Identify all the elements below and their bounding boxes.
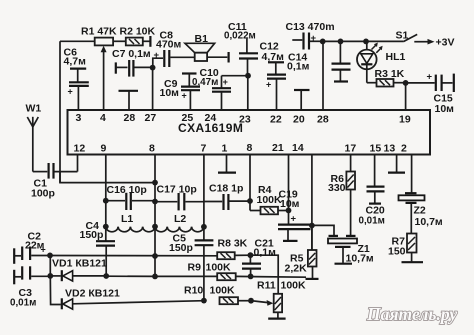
svg-text:0,1м: 0,1м xyxy=(254,247,277,259)
svg-text:8: 8 xyxy=(247,142,253,154)
wire node to pin 23 xyxy=(247,76,249,110)
wire R2 right to terminal bar xyxy=(143,40,150,42)
svg-text:100K: 100K xyxy=(210,285,236,297)
svg-text:25: 25 xyxy=(182,112,194,124)
svg-text:10м: 10м xyxy=(435,103,455,115)
wire top-left rail from node A to R1 xyxy=(60,40,95,42)
svg-text:2: 2 xyxy=(401,143,407,155)
resistor R9 100K xyxy=(188,262,307,281)
terminal bar after R2 xyxy=(149,36,151,47)
node R10 / R11 wiper xyxy=(248,298,254,304)
svg-text:150p: 150p xyxy=(169,242,193,254)
node junction C7/C8/pin27 xyxy=(150,65,156,71)
inductor L2 xyxy=(155,213,207,232)
svg-text:C17 10p: C17 10p xyxy=(157,184,197,196)
svg-text:+: + xyxy=(68,87,73,97)
svg-text:HL1: HL1 xyxy=(386,51,406,63)
svg-text:4: 4 xyxy=(100,112,106,124)
resistor R1 47K (potentiometer body) xyxy=(81,26,117,46)
svg-text:+3V: +3V xyxy=(436,37,455,49)
LED HL1 xyxy=(357,41,405,82)
wire +3V rail xyxy=(323,40,404,42)
capacitor C4 150p xyxy=(80,220,116,276)
svg-text:28: 28 xyxy=(317,114,329,126)
svg-text:100K: 100K xyxy=(206,262,232,274)
svg-text:470м: 470м xyxy=(156,39,182,51)
svg-text:13: 13 xyxy=(384,143,396,155)
R11 wiper arrow xyxy=(251,300,273,306)
node VD2 line / pin7 line xyxy=(201,298,207,304)
node L1/L2 on pin8 line xyxy=(152,224,158,230)
varactor diode VD2 KB121 xyxy=(62,288,204,310)
svg-text:10м: 10м xyxy=(160,87,180,99)
svg-text:R2 10K: R2 10K xyxy=(120,26,156,38)
svg-text:+: + xyxy=(266,80,271,90)
svg-text:2,2K: 2,2K xyxy=(285,263,308,275)
svg-text:150: 150 xyxy=(388,246,406,258)
node rail at C14 xyxy=(338,39,344,45)
svg-text:4,7м: 4,7м xyxy=(64,56,87,68)
svg-text:R8 3K: R8 3K xyxy=(218,238,248,250)
node junction C11/C10/pin23 xyxy=(245,73,251,79)
svg-text:1: 1 xyxy=(222,143,228,155)
arrow to +3V xyxy=(414,39,434,45)
node C21 / R9 line xyxy=(248,274,254,280)
wire pin 7 vertical line xyxy=(203,155,205,241)
wire pin 21 down through C19 xyxy=(288,155,290,224)
svg-text:330: 330 xyxy=(328,182,346,194)
wire junction down to pin 27 xyxy=(152,68,154,110)
svg-text:+: + xyxy=(41,245,46,255)
wire left vertical bus (60,41)-(60,182.6) xyxy=(59,41,61,182)
svg-text:C7 0,1м: C7 0,1м xyxy=(112,48,151,60)
wire VD1/R9 line pin8 to R9 xyxy=(155,275,217,277)
svg-text:0,022м: 0,022м xyxy=(224,31,256,42)
svg-text:R1 47K: R1 47K xyxy=(81,26,117,38)
svg-text:15: 15 xyxy=(370,143,382,155)
capacitor C10 0,47M xyxy=(192,67,231,110)
wire node to pin 19 xyxy=(405,83,407,110)
capacitor C15 10M xyxy=(406,72,455,116)
svg-text:17: 17 xyxy=(345,143,357,155)
capacitor C14 0,1M xyxy=(287,41,351,81)
wire junction up and right to C8 xyxy=(153,58,163,67)
node R8 wire / pin8 line xyxy=(152,253,158,259)
capacitor C21 0,1M xyxy=(242,238,276,277)
node VD1 line / pin8 line xyxy=(152,274,158,280)
svg-text:100K: 100K xyxy=(281,280,307,292)
svg-text:24: 24 xyxy=(205,112,217,124)
svg-text:21: 21 xyxy=(272,142,284,154)
svg-text:+: + xyxy=(427,72,433,83)
terminal bar C3 input xyxy=(13,270,15,285)
IC U1 CXA1619M body xyxy=(68,110,431,155)
inductor L1 xyxy=(103,213,155,232)
svg-text:R10: R10 xyxy=(184,285,203,297)
wire VD2 elbow from C3 node xyxy=(50,276,61,305)
resistor R10 100K xyxy=(184,285,251,305)
wire left bus elbow to pin8 line xyxy=(60,172,155,183)
svg-text:7: 7 xyxy=(201,143,207,155)
wire R1 to R2 xyxy=(113,40,126,42)
svg-text:20: 20 xyxy=(293,114,305,126)
svg-text:28: 28 xyxy=(124,112,136,124)
svg-text:+: + xyxy=(223,77,228,87)
wire pin 14 down xyxy=(311,155,313,251)
capacitor C12 4,7M xyxy=(260,41,287,111)
node VD1 / pin9 line xyxy=(103,273,109,279)
svg-text:0,01м: 0,01м xyxy=(359,216,385,227)
svg-text:0,47м: 0,47м xyxy=(192,77,218,88)
capacitor C11 0,022M xyxy=(224,21,258,76)
wire C10 top to node at C11 bottom xyxy=(222,75,249,77)
wire pin 9 vertical line xyxy=(105,155,107,242)
svg-text:150p: 150p xyxy=(80,229,104,241)
svg-text:+: + xyxy=(311,33,317,44)
capacitor C6 4,7M xyxy=(64,47,89,111)
svg-text:27: 27 xyxy=(145,112,157,124)
node pin8 line / bus xyxy=(152,180,158,186)
ground pin 13 xyxy=(388,155,405,173)
capacitor C7 0,1M xyxy=(112,48,153,77)
node C2 junction xyxy=(47,253,53,259)
capacitor C2 22M xyxy=(14,231,50,261)
capacitor C5 150p xyxy=(169,233,213,301)
switch S1 xyxy=(396,30,418,42)
ceramic filter Z2 10,7M xyxy=(399,155,443,234)
ceramic filter Z1 10,7M xyxy=(328,236,374,265)
resistor R7 150 xyxy=(388,234,423,263)
svg-text:19: 19 xyxy=(399,114,411,126)
svg-text:VD1 КВ121: VD1 КВ121 xyxy=(52,258,107,270)
node pin14 / Z1 branch xyxy=(309,223,315,229)
resistor R3 1K xyxy=(367,68,406,87)
capacitor C20 0,01M xyxy=(359,155,385,227)
resistor R4 100K xyxy=(250,184,289,214)
wire C2 node down to C3 node xyxy=(49,255,51,275)
node R3/C15/pin19 xyxy=(403,80,409,86)
svg-text:10,7м: 10,7м xyxy=(415,216,443,228)
svg-text:0,01м: 0,01м xyxy=(10,298,36,309)
svg-text:8: 8 xyxy=(149,143,155,155)
wire VD1 line to pin8 line xyxy=(106,275,155,277)
svg-text:Паятель.ру: Паятель.ру xyxy=(366,304,457,324)
svg-text:+: + xyxy=(291,214,297,225)
variable resistor R11 100K xyxy=(257,280,306,319)
wire pin 12 drop xyxy=(77,155,79,172)
svg-text:10м: 10м xyxy=(280,198,300,210)
resistor R6 330 xyxy=(328,155,355,236)
T stub above pin 20 xyxy=(294,90,310,110)
svg-text:23: 23 xyxy=(239,114,251,126)
capacitor C3 0,01M xyxy=(10,266,50,308)
node R8/C21 junction xyxy=(248,252,254,258)
resistor R8 3K xyxy=(50,238,250,260)
node rail at HL1 xyxy=(363,39,369,45)
speaker B1 xyxy=(185,33,229,63)
capacitor C18 1p xyxy=(204,183,250,211)
terminal bar C2 input xyxy=(13,248,15,263)
wire pin 8 vertical line xyxy=(154,155,156,277)
svg-text:+: + xyxy=(182,91,187,101)
varactor diode VD1 KB121 xyxy=(50,258,107,282)
wire rail dot to pin 28b xyxy=(322,41,324,110)
node C3/VD1/VD2 junction xyxy=(47,273,53,279)
R1 wiper arrow to pin 4 xyxy=(101,46,107,110)
ground pin 1 xyxy=(218,155,236,173)
svg-text:L2: L2 xyxy=(174,213,186,225)
svg-text:12: 12 xyxy=(74,143,86,155)
svg-text:C18 1p: C18 1p xyxy=(209,183,243,195)
wire R8 node right and down to R11 xyxy=(250,255,278,294)
capacitor C1 100p xyxy=(31,163,78,200)
capacitor C8 470M xyxy=(154,30,195,68)
node R4 / pin21 line xyxy=(286,208,292,214)
svg-text:14: 14 xyxy=(292,142,304,154)
svg-text:R9: R9 xyxy=(188,262,202,274)
capacitor C17 10p xyxy=(152,184,204,211)
T stub above pin 28 left xyxy=(119,91,139,110)
svg-text:R11: R11 xyxy=(257,280,276,292)
svg-text:22: 22 xyxy=(270,114,282,126)
capacitor C9 10M xyxy=(160,74,201,111)
svg-text:C13 470m: C13 470m xyxy=(286,21,335,33)
resistor R2 10K xyxy=(120,26,156,46)
svg-text:L1: L1 xyxy=(121,213,133,225)
capacitor C19 10M xyxy=(278,189,311,241)
svg-text:Z2: Z2 xyxy=(414,205,426,217)
svg-text:0,1м: 0,1м xyxy=(287,61,310,73)
node rail at pin 28b xyxy=(320,39,326,45)
wire branch to Z1 left xyxy=(312,225,334,235)
antenna W1 xyxy=(26,103,42,172)
svg-text:100p: 100p xyxy=(31,188,55,200)
wire pin 8b down to R4 xyxy=(249,155,251,211)
capacitor C16 10p xyxy=(103,184,155,210)
svg-text:9: 9 xyxy=(101,143,107,155)
svg-text:+: + xyxy=(154,50,160,61)
svg-text:W1: W1 xyxy=(26,103,42,115)
capacitor C13 470m xyxy=(286,21,335,50)
node C18 / pin8b line xyxy=(247,198,253,204)
resistor R5 2,2K xyxy=(285,226,319,279)
svg-text:3: 3 xyxy=(76,112,82,124)
